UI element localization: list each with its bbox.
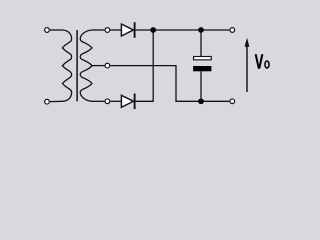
terminal primary bottom — [45, 99, 50, 104]
terminal output minus — [230, 99, 235, 104]
wire primary bottom lead — [50, 100, 62, 102]
label Vo : letter V — [255, 54, 264, 68]
wire D2 anode — [110, 100, 121, 102]
wire capacitor bottom — [200, 71, 202, 101]
wire D1 cathode to node — [135, 29, 154, 31]
transformer core — [76, 30, 78, 101]
wire center tap to bottom rail — [110, 66, 229, 102]
node capacitor bottom — [198, 98, 204, 104]
terminal secondary center tap — [105, 63, 110, 68]
terminal secondary top — [105, 28, 110, 33]
terminal output plus — [230, 28, 235, 33]
wire secondary center-tap lead — [92, 65, 104, 67]
capacitor C1 bottom plate — [193, 66, 211, 71]
wire secondary bottom lead — [92, 100, 104, 102]
wire secondary top lead — [92, 29, 104, 31]
terminal secondary bottom — [105, 99, 110, 104]
wire top rail — [153, 29, 229, 31]
terminal primary top — [45, 28, 50, 33]
node junction diode outputs — [150, 27, 156, 33]
node capacitor top — [198, 27, 204, 33]
wire D2 cathode riser to top node — [135, 30, 154, 101]
wire primary top lead — [50, 29, 62, 31]
diode D2 — [121, 94, 134, 110]
capacitor C1 top plate — [194, 57, 212, 60]
wire D1 anode — [110, 29, 121, 31]
diode D1 — [121, 22, 134, 38]
arrow Vo — [245, 38, 250, 92]
transformer T1 primary winding — [62, 30, 71, 101]
label Vo : subscript o — [265, 61, 269, 68]
wire capacitor top — [200, 30, 202, 56]
transformer T1 secondary winding — [80, 30, 92, 101]
